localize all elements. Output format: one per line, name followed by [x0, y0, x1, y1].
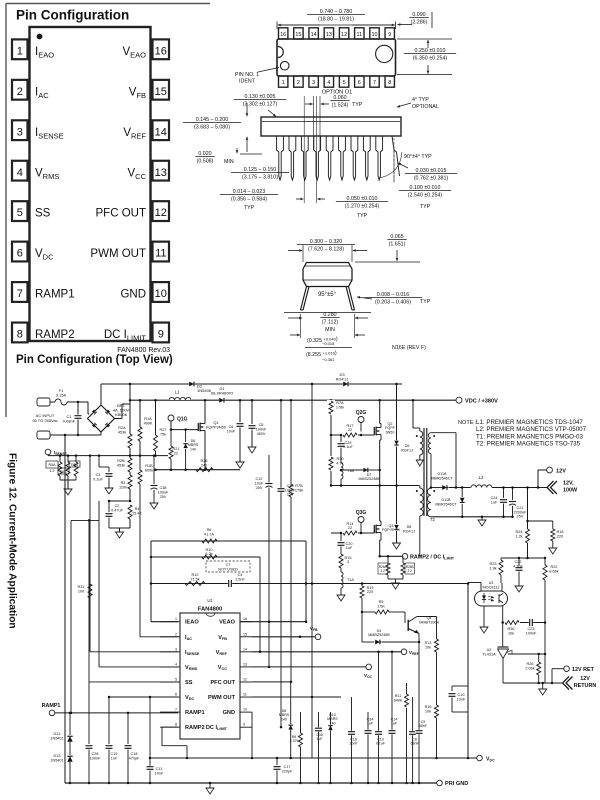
svg-text:(1.270 ±0.254): (1.270 ±0.254) — [345, 204, 380, 210]
svg-text:C18: C18 — [131, 752, 138, 756]
svg-text:10nF: 10nF — [155, 771, 164, 775]
svg-text:1: 1 — [17, 45, 23, 57]
svg-text:0.100 ±0.010: 0.100 ±0.010 — [410, 185, 441, 191]
svg-text:(18.80 – 19.81): (18.80 – 19.81) — [318, 17, 354, 23]
svg-text:12: 12 — [341, 32, 347, 38]
svg-text:R5A: R5A — [49, 463, 57, 467]
svg-text:MMBT3904: MMBT3904 — [419, 620, 439, 624]
svg-text:Pin Configuration (Top View): Pin Configuration (Top View) — [16, 354, 173, 366]
svg-text:15: 15 — [155, 86, 167, 98]
svg-text:6: 6 — [175, 693, 177, 697]
svg-text:C19: C19 — [111, 752, 118, 756]
svg-text:10k: 10k — [425, 645, 431, 649]
svg-text:PWM OUT: PWM OUT — [208, 695, 236, 701]
svg-text:Figure 12. Current-Mode Applic: Figure 12. Current-Mode Application — [7, 453, 18, 629]
svg-text:C4: C4 — [238, 573, 243, 577]
svg-text:12: 12 — [243, 677, 247, 681]
svg-text:8: 8 — [17, 329, 23, 341]
svg-text:1uF: 1uF — [367, 722, 374, 726]
svg-text:10uF: 10uF — [255, 481, 264, 485]
svg-text:Q3G: Q3G — [356, 510, 367, 516]
svg-text:0.145 – 0.200: 0.145 – 0.200 — [196, 117, 228, 123]
svg-text:C17: C17 — [284, 765, 291, 769]
svg-text:3: 3 — [17, 126, 23, 138]
svg-text:190nF: 190nF — [256, 427, 267, 431]
svg-text:MMSZ5248B: MMSZ5248B — [359, 477, 381, 481]
svg-text:D12: D12 — [54, 732, 61, 736]
svg-text:VDC / +380V: VDC / +380V — [465, 398, 498, 404]
svg-text:3: 3 — [347, 560, 349, 564]
svg-text:PFC OUT: PFC OUT — [96, 208, 146, 220]
svg-text:−0.381: −0.381 — [322, 357, 335, 362]
svg-text:16: 16 — [243, 617, 247, 621]
svg-text:1nF: 1nF — [111, 756, 118, 760]
svg-text:5: 5 — [343, 80, 346, 86]
svg-text:10nF: 10nF — [349, 742, 358, 746]
svg-text:10nF: 10nF — [227, 429, 236, 433]
svg-text:0.014 – 0.023: 0.014 – 0.023 — [233, 189, 265, 195]
svg-text:450V: 450V — [257, 432, 266, 436]
svg-text:L2: PREMIER MAGNETICS VTP-0500: L2: PREMIER MAGNETICS VTP-05007 — [476, 426, 587, 433]
svg-text:PIN NO. 1: PIN NO. 1 — [235, 72, 259, 78]
svg-text:R31: R31 — [78, 585, 85, 589]
svg-text:10k: 10k — [425, 709, 431, 713]
svg-text:4: 4 — [327, 80, 330, 86]
svg-text:R7A: R7A — [336, 401, 344, 405]
svg-text:U1: U1 — [207, 598, 213, 603]
svg-text:R5B: R5B — [71, 463, 78, 467]
svg-text:9: 9 — [158, 329, 164, 341]
svg-text:0.250 ±0.010: 0.250 ±0.010 — [415, 48, 446, 54]
svg-text:MIN: MIN — [224, 159, 234, 165]
svg-text:TYP: TYP — [352, 102, 363, 108]
svg-text:MOC8112: MOC8112 — [482, 585, 499, 589]
svg-text:0.1uF: 0.1uF — [376, 742, 386, 746]
svg-text:11: 11 — [243, 693, 247, 697]
svg-text:NOT USED: NOT USED — [218, 568, 238, 572]
svg-text:1.5K: 1.5K — [377, 604, 385, 608]
svg-text:T1: PREMIER MAGNETICS PMGO-03: T1: PREMIER MAGNETICS PMGO-03 — [476, 433, 583, 440]
svg-text:4: 4 — [17, 167, 23, 179]
svg-text:MIN: MIN — [325, 327, 335, 333]
svg-text:1.5nF: 1.5nF — [235, 577, 245, 581]
svg-text:22: 22 — [174, 451, 178, 455]
svg-text:178k: 178k — [336, 405, 344, 409]
svg-text:TL431A: TL431A — [482, 652, 496, 656]
svg-text:(3.683 – 5.080): (3.683 – 5.080) — [194, 125, 230, 131]
svg-text:140: 140 — [190, 447, 196, 451]
svg-text:12V: 12V — [556, 469, 566, 475]
svg-text:453k: 453k — [118, 430, 126, 434]
svg-text:1N5401: 1N5401 — [50, 758, 63, 762]
svg-text:(3.175 – 3.810): (3.175 – 3.810) — [242, 175, 278, 181]
svg-text:10: 10 — [243, 708, 247, 712]
svg-text:16: 16 — [280, 32, 286, 38]
svg-text:140: 140 — [330, 721, 336, 725]
svg-text:1uF: 1uF — [391, 722, 398, 726]
svg-text:D5: D5 — [405, 444, 410, 448]
svg-text:R3: R3 — [121, 481, 126, 485]
svg-text:Q2G: Q2G — [356, 410, 367, 416]
svg-text:13: 13 — [155, 167, 167, 179]
svg-text:0.47uF: 0.47uF — [111, 508, 124, 512]
svg-text:8: 8 — [175, 723, 177, 727]
svg-text:25V: 25V — [517, 515, 524, 519]
svg-text:0.020: 0.020 — [198, 151, 211, 157]
svg-text:110k: 110k — [119, 485, 127, 489]
svg-text:0.300 – 0.320: 0.300 – 0.320 — [310, 239, 342, 245]
svg-text:C7: C7 — [226, 563, 231, 567]
svg-text:140: 140 — [281, 717, 287, 721]
svg-text:3.15A: 3.15A — [56, 393, 67, 398]
svg-text:3: 3 — [175, 647, 177, 651]
svg-text:14: 14 — [243, 647, 247, 651]
svg-text:R26: R26 — [201, 459, 208, 463]
svg-text:C28: C28 — [92, 752, 99, 756]
svg-text:1N5401: 1N5401 — [50, 736, 63, 740]
svg-text:1: 1 — [175, 617, 177, 621]
svg-text:0.060: 0.060 — [333, 95, 346, 101]
svg-text:SS: SS — [185, 680, 193, 686]
svg-text:PWM OUT: PWM OUT — [90, 248, 146, 260]
svg-text:FAN4800: FAN4800 — [198, 607, 223, 613]
svg-text:0.68nF: 0.68nF — [63, 419, 76, 424]
svg-text:11: 11 — [155, 248, 166, 260]
svg-text:RGF1J: RGF1J — [336, 377, 349, 382]
svg-text:3: 3 — [312, 80, 315, 86]
svg-text:0.1uF: 0.1uF — [93, 477, 103, 481]
svg-text:RAMP1: RAMP1 — [35, 289, 75, 301]
svg-text:22: 22 — [348, 526, 352, 530]
svg-text:5: 5 — [175, 677, 177, 681]
svg-text:R27: R27 — [160, 428, 167, 432]
svg-text:649K: 649K — [394, 698, 403, 702]
svg-text:1N5406: 1N5406 — [197, 388, 212, 393]
svg-text:0.065: 0.065 — [390, 234, 403, 240]
svg-text:(0.508): (0.508) — [197, 159, 214, 165]
svg-text:R2B: R2B — [117, 459, 125, 463]
svg-text:220: 220 — [557, 534, 563, 538]
svg-text:6: 6 — [17, 248, 23, 260]
svg-text:ISL9R460P2: ISL9R460P2 — [211, 391, 234, 396]
svg-text:RAMP1: RAMP1 — [185, 710, 205, 716]
svg-text:75k: 75k — [160, 432, 166, 436]
svg-text:9: 9 — [243, 723, 245, 727]
svg-text:9: 9 — [388, 32, 391, 38]
svg-text:(7.112): (7.112) — [322, 320, 339, 326]
svg-text:(1.524): (1.524) — [332, 103, 349, 109]
svg-text:C3: C3 — [96, 473, 101, 477]
svg-text:(3.302 ±0.127): (3.302 ±0.127) — [243, 102, 278, 108]
svg-text:2.2: 2.2 — [380, 569, 385, 573]
svg-text:600k: 600k — [145, 468, 153, 472]
svg-text:RGF1J: RGF1J — [403, 529, 415, 533]
svg-text:5: 5 — [17, 207, 23, 219]
svg-text:12V,: 12V, — [563, 481, 574, 487]
svg-text:71.5k: 71.5k — [190, 577, 199, 581]
svg-text:2: 2 — [297, 80, 300, 86]
svg-text:T1A: T1A — [347, 578, 354, 582]
svg-text:10uF: 10uF — [457, 697, 466, 701]
svg-text:12V RET: 12V RET — [572, 667, 595, 673]
svg-text:PRI GND: PRI GND — [445, 781, 468, 787]
svg-text:100uF: 100uF — [158, 490, 169, 494]
svg-text:15: 15 — [243, 632, 247, 636]
svg-text:R1B: R1B — [145, 464, 153, 468]
svg-text:NOTE :: NOTE : — [458, 420, 477, 426]
svg-text:7: 7 — [17, 288, 23, 300]
svg-text:L2: L2 — [479, 475, 484, 480]
svg-text:1.2k: 1.2k — [515, 534, 522, 538]
svg-text:0.1uF: 0.1uF — [343, 445, 353, 449]
svg-text:2.09k: 2.09k — [525, 666, 534, 670]
svg-text:90°±4° TYP: 90°±4° TYP — [404, 154, 432, 160]
svg-text:L1: L1 — [175, 390, 180, 395]
svg-text:2: 2 — [175, 632, 177, 636]
svg-text:TYP: TYP — [420, 299, 431, 305]
svg-text:100nF: 100nF — [90, 756, 101, 760]
svg-text:R21: R21 — [173, 447, 180, 451]
svg-text:TYP: TYP — [420, 204, 431, 210]
svg-text:470pF: 470pF — [129, 756, 140, 760]
svg-text:N16E (REV F): N16E (REV F) — [392, 345, 426, 351]
svg-text:1: 1 — [282, 80, 285, 86]
svg-text:14: 14 — [155, 126, 167, 138]
svg-text:10k: 10k — [508, 631, 514, 635]
svg-text:22: 22 — [348, 428, 352, 432]
svg-text:1uF: 1uF — [316, 737, 323, 741]
svg-text:(0.356 – 0.584): (0.356 – 0.584) — [231, 197, 267, 203]
svg-text:1.9k: 1.9k — [489, 566, 496, 570]
svg-text:MMBZ5245B: MMBZ5245B — [368, 633, 390, 637]
svg-text:100nF: 100nF — [526, 631, 537, 635]
svg-text:(1.651): (1.651) — [389, 242, 406, 248]
svg-text:(7.620 – 8.128): (7.620 – 8.128) — [308, 247, 344, 253]
svg-text:GND: GND — [223, 710, 235, 716]
svg-text:RAMP1: RAMP1 — [42, 703, 61, 709]
svg-text:TYP: TYP — [357, 213, 368, 219]
svg-text:4.7uF: 4.7uF — [513, 564, 523, 568]
svg-text:10: 10 — [372, 32, 378, 38]
svg-text:0.130 ±0.005: 0.130 ±0.005 — [245, 94, 276, 100]
svg-text:15: 15 — [295, 32, 301, 38]
svg-text:RAMP2: RAMP2 — [185, 725, 205, 731]
svg-text:4: 4 — [175, 662, 177, 666]
svg-text:11: 11 — [356, 32, 362, 38]
svg-text:Pin Configuration: Pin Configuration — [16, 8, 129, 23]
svg-text:MBR2546CT: MBR2546CT — [435, 502, 457, 506]
svg-text:4° TYP: 4° TYP — [412, 97, 429, 103]
svg-text:2.2: 2.2 — [407, 569, 412, 573]
svg-text:0.090: 0.090 — [412, 12, 425, 18]
svg-text:Q1G: Q1G — [177, 417, 188, 423]
svg-text:68nF: 68nF — [410, 742, 419, 746]
svg-text:SS: SS — [35, 208, 51, 220]
svg-text:RETURN: RETURN — [574, 683, 597, 689]
svg-text:178k: 178k — [295, 488, 303, 492]
svg-text:VEAO: VEAO — [219, 620, 236, 626]
svg-text:D13: D13 — [54, 754, 61, 758]
svg-text:PFC OUT: PFC OUT — [210, 680, 235, 686]
svg-text:RAMP2: RAMP2 — [35, 329, 75, 341]
svg-text:220pF: 220pF — [282, 769, 293, 773]
svg-text:R2A: R2A — [118, 426, 126, 430]
svg-text:T2: PREMIER MAGNETICS TSO-735: T2: PREMIER MAGNETICS TSO-735 — [476, 441, 581, 448]
svg-text:10: 10 — [155, 288, 167, 300]
svg-text:R12: R12 — [192, 573, 199, 577]
svg-text:R7B: R7B — [295, 484, 303, 488]
svg-text:220: 220 — [367, 590, 373, 594]
svg-text:(2.540 ±0.254): (2.540 ±0.254) — [408, 193, 443, 199]
svg-text:R30: R30 — [337, 457, 344, 461]
svg-text:15.4K: 15.4K — [132, 511, 142, 515]
svg-text:8.66k: 8.66k — [549, 569, 558, 573]
svg-text:L1: PREMIER MAGNETICS TDS-1047: L1: PREMIER MAGNETICS TDS-1047 — [476, 419, 583, 426]
svg-text:0.280: 0.280 — [323, 312, 336, 318]
svg-text:0.030 ±0.015: 0.030 ±0.015 — [416, 168, 447, 174]
svg-text:C5: C5 — [259, 423, 264, 427]
svg-text:41.7A: 41.7A — [204, 532, 214, 536]
svg-text:100: 100 — [78, 589, 84, 593]
svg-text:T2: T2 — [430, 517, 436, 522]
svg-text:C38: C38 — [160, 486, 167, 490]
svg-text:0.125 – 0.150: 0.125 – 0.150 — [244, 167, 276, 173]
svg-text:KBL06: KBL06 — [115, 412, 128, 417]
svg-text:TYP: TYP — [244, 205, 255, 211]
svg-text:−0.015: −0.015 — [322, 341, 335, 346]
svg-text:R5C: R5C — [60, 470, 67, 474]
svg-text:25V: 25V — [160, 495, 167, 499]
svg-text:56nF: 56nF — [419, 724, 428, 728]
svg-text:95 TO 265Vac: 95 TO 265Vac — [32, 418, 57, 423]
svg-text:7: 7 — [373, 80, 376, 86]
svg-text:14: 14 — [311, 32, 317, 38]
svg-text:C2: C2 — [115, 504, 120, 508]
svg-text:C6: C6 — [229, 425, 234, 429]
svg-text:100W: 100W — [563, 488, 578, 494]
svg-text:C11: C11 — [156, 767, 163, 771]
svg-text:(0.762 ±0.381): (0.762 ±0.381) — [414, 176, 449, 182]
svg-text:240: 240 — [201, 463, 207, 467]
svg-text:6N50: 6N50 — [386, 430, 395, 434]
svg-text:6.2k: 6.2k — [205, 552, 212, 556]
svg-text:7: 7 — [175, 708, 177, 712]
svg-text:0.740 – 0.780: 0.740 – 0.780 — [320, 9, 352, 15]
svg-text:0.050 ±0.010: 0.050 ±0.010 — [347, 196, 378, 202]
svg-text:GND: GND — [120, 289, 146, 301]
svg-text:2: 2 — [17, 86, 23, 98]
svg-text:R6: R6 — [207, 528, 212, 532]
svg-text:RGF1J: RGF1J — [401, 448, 413, 452]
svg-text:1uF: 1uF — [491, 500, 498, 504]
svg-text:13: 13 — [326, 32, 332, 38]
svg-text:453k: 453k — [117, 463, 125, 467]
svg-text:(0.203 – 0.406): (0.203 – 0.406) — [375, 300, 411, 306]
svg-text:499K: 499K — [144, 421, 153, 425]
svg-text:(6.350 ±0.254): (6.350 ±0.254) — [413, 56, 448, 62]
svg-text:1uF: 1uF — [346, 546, 353, 550]
svg-text:1.2: 1.2 — [50, 469, 55, 473]
svg-text:R1A: R1A — [144, 417, 152, 421]
svg-text:95°±5°: 95°±5° — [318, 292, 337, 298]
svg-text:16: 16 — [155, 45, 167, 57]
svg-text:13: 13 — [243, 662, 247, 666]
svg-text:FAN4800 Rev.03: FAN4800 Rev.03 — [117, 347, 170, 354]
svg-text:OPTIONAL: OPTIONAL — [412, 104, 439, 110]
svg-text:8: 8 — [388, 80, 391, 86]
svg-text:25V: 25V — [256, 486, 263, 490]
svg-text:(2.286): (2.286) — [411, 20, 428, 26]
svg-text:R4: R4 — [135, 507, 140, 511]
svg-text:IEAO: IEAO — [185, 620, 199, 626]
svg-text:FQPF9N50: FQPF9N50 — [206, 425, 227, 430]
svg-text:MBR2546CT: MBR2546CT — [431, 476, 453, 480]
svg-text:C12: C12 — [256, 477, 263, 481]
svg-text:12V: 12V — [580, 676, 590, 682]
svg-text:0.008 – 0.016: 0.008 – 0.016 — [377, 292, 409, 298]
svg-text:6: 6 — [358, 80, 361, 86]
svg-text:IDENT: IDENT — [239, 79, 256, 85]
svg-text:12: 12 — [155, 207, 167, 219]
